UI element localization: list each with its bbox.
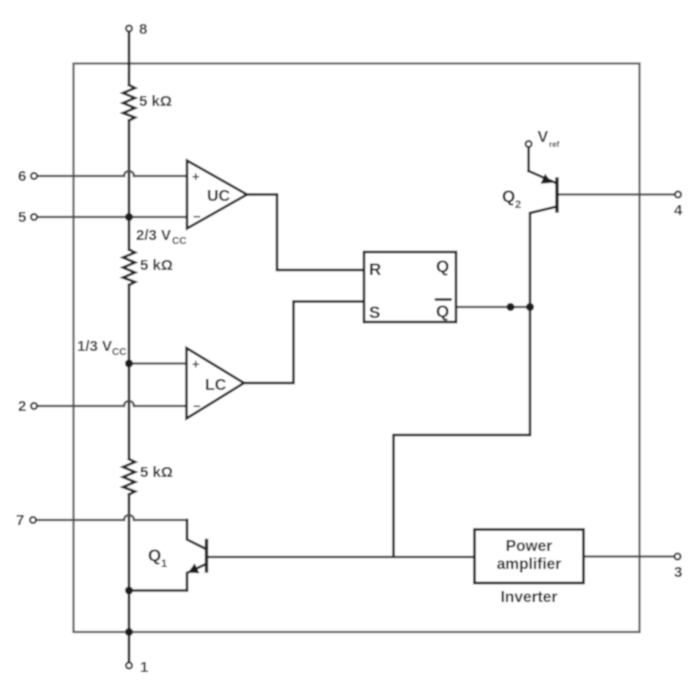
svg-text:Q: Q [436, 302, 449, 321]
svg-text:2: 2 [515, 199, 521, 211]
svg-text:ref: ref [549, 140, 560, 149]
svg-text:V: V [538, 129, 549, 146]
svg-text:S: S [369, 303, 380, 322]
svg-text:−: − [193, 399, 201, 414]
svg-text:Q: Q [436, 257, 449, 276]
svg-text:Power: Power [506, 538, 553, 555]
svg-text:6: 6 [18, 168, 26, 185]
svg-text:5 kΩ: 5 kΩ [139, 93, 172, 110]
svg-text:1/3 V: 1/3 V [77, 338, 112, 355]
svg-text:amplifier: amplifier [497, 556, 562, 573]
svg-text:4: 4 [674, 202, 683, 219]
svg-text:Inverter: Inverter [501, 589, 558, 606]
svg-text:3: 3 [674, 564, 682, 581]
svg-text:+: + [192, 169, 200, 184]
svg-text:5: 5 [18, 209, 26, 226]
svg-text:5 kΩ: 5 kΩ [140, 257, 173, 274]
svg-text:LC: LC [205, 377, 227, 394]
svg-text:1: 1 [161, 558, 167, 570]
svg-text:Q: Q [502, 187, 515, 206]
svg-text:CC: CC [172, 236, 186, 247]
svg-text:−: − [193, 209, 201, 224]
svg-text:UC: UC [207, 188, 231, 205]
svg-text:2/3 V: 2/3 V [136, 227, 171, 244]
svg-text:7: 7 [16, 512, 24, 529]
svg-text:CC: CC [112, 347, 126, 358]
svg-text:+: + [192, 357, 200, 372]
svg-text:8: 8 [139, 21, 147, 38]
svg-text:R: R [369, 260, 381, 279]
svg-text:1: 1 [140, 659, 148, 676]
svg-text:5 kΩ: 5 kΩ [140, 464, 173, 481]
svg-text:2: 2 [18, 398, 26, 415]
svg-text:Q: Q [148, 546, 161, 565]
